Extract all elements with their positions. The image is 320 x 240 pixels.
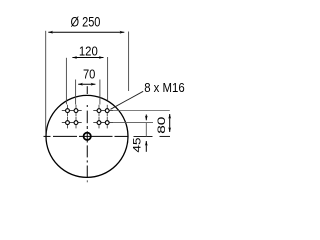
svg-text:80: 80	[156, 117, 168, 134]
svg-text:120: 120	[79, 44, 98, 58]
svg-text:45: 45	[132, 138, 144, 153]
svg-text:70: 70	[83, 68, 95, 82]
svg-text:Ø 250: Ø 250	[70, 15, 100, 30]
svg-text:8 x M16: 8 x M16	[144, 80, 185, 95]
